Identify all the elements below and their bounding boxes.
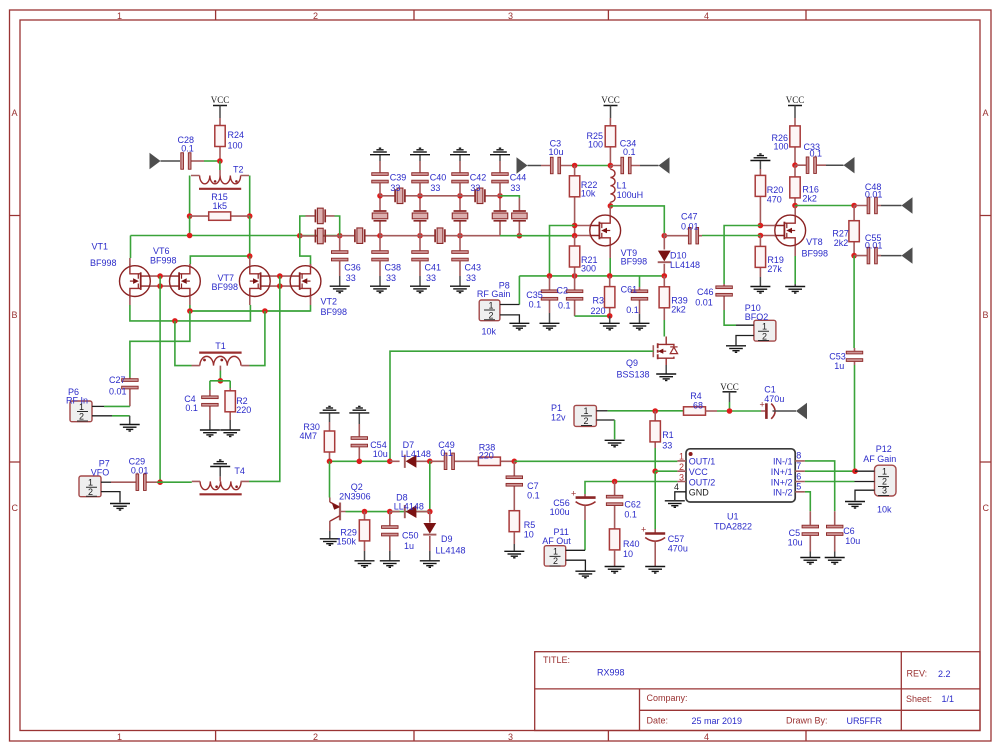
P12 pin3 lead to ground bbox=[855, 490, 875, 500]
junction R38/C7 output node bbox=[512, 459, 518, 465]
svg-text:470u: 470u bbox=[668, 544, 688, 554]
diode D7 LL4148 bbox=[390, 460, 430, 462]
P12 pin2 lead bbox=[855, 481, 875, 483]
svg-text:C2: C2 bbox=[557, 286, 569, 296]
svg-text:D9: D9 bbox=[441, 534, 453, 544]
VT8 gate junctions bbox=[758, 223, 764, 229]
svg-text:IN-/1: IN-/1 bbox=[773, 457, 793, 467]
resistor R5 bbox=[509, 511, 519, 532]
capacitor C6 bbox=[834, 511, 836, 551]
svg-text:0.1: 0.1 bbox=[181, 144, 194, 154]
crystal Xv-500 bbox=[499, 196, 501, 236]
svg-text:OUT/1: OUT/1 bbox=[689, 457, 716, 467]
wire R39 bottom to Q9 drain bbox=[663, 320, 665, 337]
svg-text:3: 3 bbox=[882, 486, 887, 496]
svg-text:27k: 27k bbox=[767, 264, 782, 274]
svg-text:2: 2 bbox=[489, 310, 494, 320]
wire R15 right down crossing rail T to VT7 drain node bbox=[249, 216, 251, 256]
svg-text:C: C bbox=[983, 503, 990, 513]
rail B: VT6/VT2 sources bbox=[190, 305, 311, 311]
resistor R20 bbox=[759, 161, 761, 169]
dual-gate MOSFET VT7 BF998 bbox=[239, 264, 270, 298]
wire R1 bottom to U1 VCC pin bbox=[654, 448, 656, 471]
wire C56 to P11 pin1 bbox=[584, 520, 586, 550]
svg-text:Q9: Q9 bbox=[626, 358, 638, 368]
svg-text:2: 2 bbox=[584, 416, 589, 426]
capacitor C1 470u (polarized) bbox=[761, 410, 765, 412]
svg-text:VCC: VCC bbox=[601, 95, 620, 105]
svg-text:100: 100 bbox=[228, 141, 243, 151]
svg-text:VT2: VT2 bbox=[321, 296, 338, 306]
wire R15 left down to rail T bbox=[189, 216, 191, 235]
svg-text:C6: C6 bbox=[843, 526, 855, 536]
svg-text:1: 1 bbox=[553, 547, 558, 557]
svg-text:33: 33 bbox=[346, 273, 356, 283]
svg-text:C40: C40 bbox=[430, 172, 447, 182]
resistor R27 bbox=[853, 206, 855, 256]
wire VT2 drain feed bbox=[300, 236, 311, 264]
resistor R21 bbox=[574, 236, 576, 276]
svg-text:1u: 1u bbox=[404, 541, 414, 551]
wire C3 to node bbox=[571, 165, 610, 167]
svg-text:C41: C41 bbox=[425, 263, 442, 273]
power flag VCC (bottom) bbox=[720, 382, 739, 402]
svg-text:P12: P12 bbox=[876, 444, 892, 454]
svg-text:0.01: 0.01 bbox=[865, 190, 883, 200]
svg-text:0.1: 0.1 bbox=[527, 490, 540, 500]
svg-text:TITLE:: TITLE: bbox=[543, 655, 570, 665]
capacitor C61 bbox=[639, 276, 641, 287]
svg-text:R3: R3 bbox=[593, 295, 605, 305]
svg-text:C42: C42 bbox=[470, 172, 487, 182]
svg-text:33: 33 bbox=[466, 273, 476, 283]
ground (inverted, above R20) bbox=[750, 154, 770, 161]
svg-text:+: + bbox=[571, 489, 576, 499]
capacitor C62 bbox=[614, 482, 616, 529]
svg-text:+: + bbox=[641, 525, 646, 535]
svg-text:C47: C47 bbox=[681, 212, 698, 222]
wire R39 top bbox=[663, 276, 665, 320]
inductor L1 bbox=[610, 169, 615, 202]
svg-text:A: A bbox=[983, 108, 989, 118]
resistor R25 bbox=[609, 118, 611, 166]
capacitor C50 bbox=[389, 512, 391, 551]
power flag VCC (top-left) bbox=[211, 95, 230, 118]
svg-text:C: C bbox=[12, 503, 19, 513]
svg-text:0.1: 0.1 bbox=[529, 299, 542, 309]
svg-text:C57: C57 bbox=[668, 534, 685, 544]
ground (chassis arrow, right of C34) bbox=[640, 165, 659, 167]
connector P10 BFO2 bbox=[754, 320, 776, 341]
svg-text:3: 3 bbox=[679, 472, 684, 482]
svg-text:220: 220 bbox=[591, 306, 606, 316]
junction L1 bottom bbox=[608, 203, 614, 209]
svg-text:VCC: VCC bbox=[689, 467, 709, 477]
svg-text:LL4148: LL4148 bbox=[670, 260, 700, 270]
svg-text:2: 2 bbox=[679, 462, 684, 472]
svg-text:REV:: REV: bbox=[907, 669, 928, 679]
wire C2 bottom to R3 bottom bbox=[575, 315, 610, 317]
capacitor C33 bbox=[795, 164, 826, 166]
svg-text:C27: C27 bbox=[109, 375, 126, 385]
svg-text:12v: 12v bbox=[551, 413, 566, 423]
crystal X upper-1 bbox=[380, 195, 420, 197]
resistor R2 bbox=[229, 381, 231, 388]
ground (chassis arrow, left of C28) bbox=[150, 153, 161, 169]
svg-text:0.1: 0.1 bbox=[624, 510, 637, 520]
svg-text:C38: C38 bbox=[385, 263, 402, 273]
wire C57 column bbox=[654, 471, 656, 529]
wire VT6 drain feed bbox=[190, 256, 249, 264]
wire Q2 emitter bbox=[329, 461, 331, 497]
resistor R19 bbox=[759, 236, 761, 278]
svg-text:0.1: 0.1 bbox=[626, 305, 639, 315]
svg-text:33: 33 bbox=[430, 183, 440, 193]
svg-text:68: 68 bbox=[693, 400, 703, 410]
resistor R26 bbox=[794, 118, 796, 165]
svg-text:0.01: 0.01 bbox=[695, 297, 713, 307]
upper path junctions bbox=[377, 193, 383, 199]
svg-text:R24: R24 bbox=[228, 130, 245, 140]
ground above T4 center tap bbox=[219, 467, 221, 477]
svg-text:1: 1 bbox=[489, 300, 494, 310]
svg-text:R5: R5 bbox=[524, 520, 536, 530]
wire IN+/2 (pin6) to P12 pin2 bbox=[805, 481, 855, 483]
svg-text:BSS138: BSS138 bbox=[617, 370, 650, 380]
capacitor C7 bbox=[513, 461, 515, 510]
svg-text:300: 300 bbox=[581, 263, 596, 273]
svg-text:0.01: 0.01 bbox=[131, 465, 149, 475]
svg-text:10u: 10u bbox=[549, 147, 564, 157]
crystal X upper-2 bbox=[460, 195, 500, 197]
svg-text:2: 2 bbox=[553, 556, 558, 566]
svg-text:C5: C5 bbox=[789, 528, 801, 538]
ground under R2 bbox=[229, 420, 231, 430]
P11 pin2 lead to ground bbox=[566, 560, 586, 571]
wire gate column G12a down to VFO line bbox=[159, 286, 161, 482]
ground (inverted, above R30) bbox=[320, 406, 340, 413]
gate junction dots VT1/VT6 bbox=[157, 273, 163, 279]
resistor R40 bbox=[609, 529, 619, 550]
svg-text:100: 100 bbox=[774, 142, 789, 152]
svg-text:GND: GND bbox=[689, 488, 710, 498]
svg-text:10u: 10u bbox=[845, 536, 860, 546]
capacitor C39 bbox=[379, 161, 381, 196]
svg-text:IN+/1: IN+/1 bbox=[771, 467, 793, 477]
wire IN+/1 (pin7) to P12 pin1 bbox=[805, 470, 855, 472]
svg-text:VCC: VCC bbox=[720, 382, 739, 392]
svg-text:B: B bbox=[12, 310, 18, 320]
svg-text:1: 1 bbox=[762, 322, 767, 332]
gate junction dots VT7/VT2 bbox=[277, 273, 283, 279]
diode D10 LL4148 (vertical) bbox=[663, 233, 665, 276]
svg-text:BF998: BF998 bbox=[621, 257, 648, 267]
svg-text:U1: U1 bbox=[727, 512, 739, 522]
svg-text:AF Gain: AF Gain bbox=[863, 454, 896, 464]
wire T1 right vertical bbox=[250, 311, 265, 366]
wire lower path output bbox=[500, 235, 575, 237]
resistor R24 bbox=[219, 118, 221, 161]
dual-gate MOSFET VT1 BF998 bbox=[119, 264, 150, 298]
ground (chassis arrow, right of C48) bbox=[881, 205, 902, 207]
capacitor C28 bbox=[161, 160, 181, 162]
svg-text:0.01: 0.01 bbox=[681, 222, 699, 232]
svg-text:0.1: 0.1 bbox=[440, 448, 453, 458]
ground under R19 bbox=[759, 277, 761, 286]
svg-text:LL4148: LL4148 bbox=[401, 449, 431, 459]
svg-text:BF998: BF998 bbox=[150, 256, 177, 266]
svg-text:LL4148: LL4148 bbox=[436, 546, 466, 556]
capacitor C53 bbox=[854, 348, 856, 365]
svg-text:VT6: VT6 bbox=[153, 246, 170, 256]
resistor R15 bbox=[187, 213, 193, 219]
svg-text:2k2: 2k2 bbox=[671, 305, 686, 315]
crystal Xv-420 bbox=[419, 196, 421, 236]
wire OUT/2 to C56/C62 bbox=[585, 482, 677, 495]
svg-text:470u: 470u bbox=[764, 394, 784, 404]
svg-text:10k: 10k bbox=[482, 327, 497, 337]
power flag VCC (right) bbox=[786, 95, 805, 118]
wire T1 left vertical bbox=[175, 321, 192, 366]
wire VT7 drain stub bbox=[249, 256, 251, 258]
P6 pin2 lead to ground bbox=[92, 415, 112, 417]
connector P7 VFO bbox=[79, 476, 101, 497]
transistor Q9 BSS138 bbox=[653, 337, 677, 366]
capacitor C41 bbox=[419, 236, 421, 276]
wire C29 to T4 bbox=[157, 481, 192, 483]
svg-text:4: 4 bbox=[674, 482, 679, 492]
svg-text:VCC: VCC bbox=[211, 95, 230, 105]
svg-text:B: B bbox=[983, 310, 989, 320]
capacitor C29 bbox=[111, 481, 157, 483]
lower path junctions bbox=[377, 233, 383, 239]
svg-text:10u: 10u bbox=[788, 538, 803, 548]
svg-text:4: 4 bbox=[704, 11, 709, 21]
P6 pin1 lead and wire to C27 bbox=[92, 405, 104, 407]
wire R27 bottom down to C53 bbox=[853, 256, 855, 348]
svg-text:10: 10 bbox=[623, 549, 633, 559]
svg-text:RX998: RX998 bbox=[597, 668, 625, 678]
svg-text:BF998: BF998 bbox=[90, 258, 117, 268]
svg-text:D10: D10 bbox=[670, 250, 687, 260]
svg-text:Date:: Date: bbox=[647, 715, 669, 725]
VT9 gate junctions bbox=[572, 223, 578, 229]
wire VT9 drain to D10 bbox=[610, 206, 664, 233]
svg-text:1: 1 bbox=[117, 11, 122, 21]
svg-text:VFO: VFO bbox=[91, 468, 110, 478]
svg-text:2.2: 2.2 bbox=[938, 669, 951, 679]
ground (inverted, above C54) bbox=[349, 406, 369, 413]
U1 pin4 GND elbow bbox=[675, 492, 686, 500]
capacitor C57 470u (polarized) bbox=[645, 532, 665, 535]
junction node at R24 bottom bbox=[217, 158, 223, 164]
svg-text:1: 1 bbox=[882, 467, 887, 477]
svg-text:1: 1 bbox=[679, 452, 684, 462]
transformer T4 bbox=[200, 481, 242, 494]
svg-text:33: 33 bbox=[662, 441, 672, 451]
wire input bypass loop bbox=[300, 216, 340, 236]
transformer T2 bbox=[199, 176, 241, 189]
dual-gate MOSFET VT9 BF998 (mirrored) bbox=[589, 214, 620, 248]
connector P11 AF Out bbox=[544, 546, 566, 566]
svg-text:2: 2 bbox=[88, 487, 93, 497]
svg-text:2: 2 bbox=[313, 11, 318, 21]
svg-text:VT1: VT1 bbox=[92, 242, 109, 252]
svg-text:2k2: 2k2 bbox=[802, 193, 817, 203]
svg-text:1: 1 bbox=[117, 732, 122, 742]
svg-text:10u: 10u bbox=[373, 449, 388, 459]
svg-text:C62: C62 bbox=[624, 499, 641, 509]
ground under C36 bbox=[339, 276, 341, 286]
svg-text:100u: 100u bbox=[550, 507, 570, 517]
svg-text:33: 33 bbox=[426, 273, 436, 283]
svg-text:220: 220 bbox=[479, 451, 494, 461]
diode D9 LL4148 (vertical) bbox=[429, 512, 431, 551]
svg-text:33: 33 bbox=[386, 273, 396, 283]
svg-text:BF998: BF998 bbox=[802, 249, 829, 259]
capacitor C48 bbox=[854, 205, 881, 207]
svg-text:P1: P1 bbox=[551, 403, 562, 413]
wire C46 bottom to P10 pin1 bbox=[724, 310, 736, 325]
power flag VCC (center) bbox=[601, 95, 620, 118]
wire IN-/1 (pin8) to C6 bbox=[805, 461, 835, 511]
svg-text:1: 1 bbox=[584, 406, 589, 416]
connector P6 RF In bbox=[70, 401, 92, 422]
svg-text:R1: R1 bbox=[662, 430, 674, 440]
ground under Q9 bbox=[665, 365, 667, 374]
svg-text:IN-/2: IN-/2 bbox=[773, 488, 793, 498]
svg-text:0.1: 0.1 bbox=[623, 147, 636, 157]
svg-text:AF Out: AF Out bbox=[542, 536, 571, 546]
svg-text:1k5: 1k5 bbox=[213, 201, 228, 211]
transistor Q2 2N3906 bbox=[330, 498, 346, 532]
svg-text:Company:: Company: bbox=[647, 693, 688, 703]
wire C53 down to P12 node bbox=[854, 365, 856, 471]
resistor R39 bbox=[659, 287, 669, 308]
svg-text:5: 5 bbox=[796, 482, 801, 492]
svg-text:RF In: RF In bbox=[66, 396, 88, 406]
svg-text:A: A bbox=[12, 108, 18, 118]
svg-text:2: 2 bbox=[79, 411, 84, 421]
svg-text:C36: C36 bbox=[344, 263, 361, 273]
capacitor C34 bbox=[610, 165, 640, 167]
svg-text:3: 3 bbox=[508, 732, 513, 742]
ground under VT8 source bbox=[794, 284, 796, 286]
svg-text:3: 3 bbox=[508, 11, 513, 21]
svg-text:C50: C50 bbox=[402, 531, 419, 541]
svg-text:0.01: 0.01 bbox=[109, 387, 127, 397]
wire lower path bbox=[380, 235, 500, 237]
wire VT1 drain bbox=[130, 236, 132, 259]
crystal (input parallel pair, upper) bbox=[306, 215, 335, 217]
capacitor C47 bbox=[664, 235, 702, 237]
capacitor C40 bbox=[419, 161, 421, 196]
P7 pin1 lead bbox=[101, 481, 111, 483]
svg-text:2: 2 bbox=[313, 732, 318, 742]
wire upper-right bend to Xv-520 bbox=[500, 196, 519, 198]
P7 pin2 lead to ground bbox=[101, 492, 120, 503]
capacitor C36 bbox=[339, 236, 341, 276]
IC U1 TDA2822 bbox=[686, 449, 795, 502]
svg-text:8: 8 bbox=[796, 451, 801, 461]
svg-text:150k: 150k bbox=[337, 537, 357, 547]
svg-text:VT8: VT8 bbox=[806, 237, 823, 247]
svg-text:T4: T4 bbox=[234, 466, 245, 476]
svg-text:1u: 1u bbox=[834, 361, 844, 371]
capacitor C46 bbox=[723, 284, 725, 310]
svg-text:T2: T2 bbox=[233, 165, 244, 175]
AGC rail junctions bbox=[519, 276, 664, 305]
resistor R4 bbox=[684, 407, 706, 415]
P10 pin1 lead bbox=[736, 324, 754, 326]
svg-text:C53: C53 bbox=[829, 352, 846, 362]
svg-text:4: 4 bbox=[704, 732, 709, 742]
wire T2 left leg down bbox=[189, 176, 191, 217]
svg-text:0.1: 0.1 bbox=[810, 149, 823, 159]
ground (chassis arrow, right of C33) bbox=[826, 164, 844, 166]
dual-gate MOSFET VT6 BF998 (mirrored) bbox=[169, 264, 200, 298]
capacitor C3 bbox=[528, 165, 542, 167]
wire C28 to node bbox=[204, 160, 220, 162]
wire upper path middle bbox=[420, 195, 460, 197]
svg-text:C61: C61 bbox=[621, 284, 638, 294]
svg-text:VCC: VCC bbox=[786, 95, 805, 105]
svg-text:10k: 10k bbox=[581, 189, 596, 199]
svg-text:Sheet:: Sheet: bbox=[906, 694, 932, 704]
svg-text:0.1: 0.1 bbox=[185, 403, 198, 413]
wire node down to T2 tap bbox=[219, 161, 221, 170]
svg-text:BF998: BF998 bbox=[321, 307, 348, 317]
svg-text:100uH: 100uH bbox=[617, 190, 644, 200]
svg-text:2N3906: 2N3906 bbox=[339, 491, 371, 501]
capacitor C4 bbox=[209, 381, 211, 390]
svg-text:BF998: BF998 bbox=[212, 282, 239, 292]
svg-text:IN+/2: IN+/2 bbox=[771, 477, 793, 487]
P1 pin2 lead to ground bbox=[596, 419, 614, 421]
capacitor C54 bbox=[358, 413, 360, 424]
wire T1 tap to C4/R2 bbox=[219, 371, 221, 381]
wire supply rail bbox=[608, 410, 684, 412]
resistor R38 bbox=[468, 460, 515, 462]
svg-text:R40: R40 bbox=[623, 539, 640, 549]
svg-text:33: 33 bbox=[510, 183, 520, 193]
svg-text:25 mar 2019: 25 mar 2019 bbox=[692, 716, 743, 726]
crystal X lower-1 bbox=[340, 235, 380, 237]
resistor R30 bbox=[329, 413, 331, 422]
P11 pin1 lead bbox=[566, 549, 585, 551]
wire AGC to G2 bbox=[550, 226, 575, 276]
svg-text:33: 33 bbox=[390, 183, 400, 193]
resistor R29 bbox=[364, 512, 366, 551]
P10 pin2 lead to ground bbox=[736, 336, 754, 346]
junction C29/VFO column bbox=[157, 479, 163, 485]
rail T: long horizontal VT1-drain to crystal filter bbox=[131, 235, 340, 237]
P1 pin1 lead bbox=[596, 410, 607, 412]
ground (chassis arrow, right of C55) bbox=[881, 255, 902, 257]
capacitor C38 bbox=[379, 236, 381, 276]
resistor R16 bbox=[794, 165, 796, 205]
dual-gate MOSFET VT2 BF998 (mirrored) bbox=[290, 264, 321, 298]
svg-text:TDA2822: TDA2822 bbox=[714, 522, 752, 532]
wire VT8 drain node to C48 bbox=[795, 205, 854, 207]
svg-text:RF Gain: RF Gain bbox=[477, 289, 511, 299]
capacitor C55 bbox=[854, 255, 881, 257]
capacitor C56 100u (polarized) bbox=[576, 496, 596, 499]
svg-text:1/1: 1/1 bbox=[942, 694, 955, 704]
P8 pin1 lead bbox=[500, 304, 520, 306]
resistor R22 bbox=[574, 166, 576, 236]
svg-text:OUT/2: OUT/2 bbox=[689, 477, 716, 487]
